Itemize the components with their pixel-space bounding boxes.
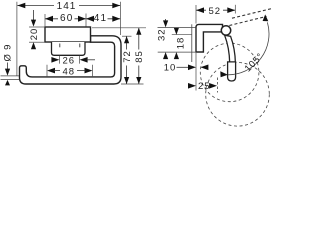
svg-text:41: 41 xyxy=(94,13,108,24)
svg-text:52: 52 xyxy=(209,6,222,17)
svg-text:25: 25 xyxy=(198,81,211,92)
svg-text:32: 32 xyxy=(157,28,168,41)
svg-text:141: 141 xyxy=(57,1,77,12)
svg-text:60: 60 xyxy=(60,13,74,24)
svg-text:26: 26 xyxy=(63,55,76,66)
svg-text:85: 85 xyxy=(134,50,145,63)
svg-text:48: 48 xyxy=(63,66,76,77)
svg-text:10: 10 xyxy=(164,63,177,74)
svg-text:18: 18 xyxy=(175,37,186,50)
svg-text:Ø 9: Ø 9 xyxy=(2,44,13,62)
svg-text:20: 20 xyxy=(29,28,40,41)
svg-text:72: 72 xyxy=(122,50,133,63)
